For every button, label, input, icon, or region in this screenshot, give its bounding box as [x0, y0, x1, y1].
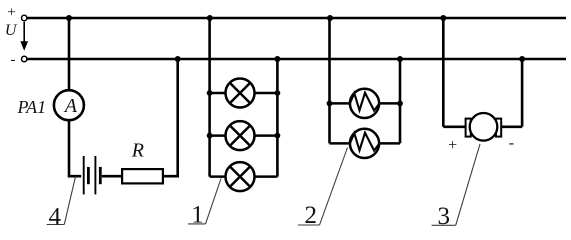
svg-text:PA1: PA1	[17, 97, 47, 117]
svg-text:4: 4	[49, 203, 62, 230]
svg-text:-: -	[10, 52, 15, 68]
svg-text:A: A	[63, 95, 78, 117]
svg-text:1: 1	[191, 202, 204, 229]
svg-text:+: +	[7, 5, 15, 21]
svg-text:-: -	[509, 134, 514, 151]
svg-text:U: U	[5, 22, 18, 39]
svg-text:3: 3	[437, 203, 450, 230]
svg-text:+: +	[448, 137, 457, 154]
svg-text:2: 2	[304, 202, 317, 229]
svg-text:R: R	[131, 139, 144, 161]
